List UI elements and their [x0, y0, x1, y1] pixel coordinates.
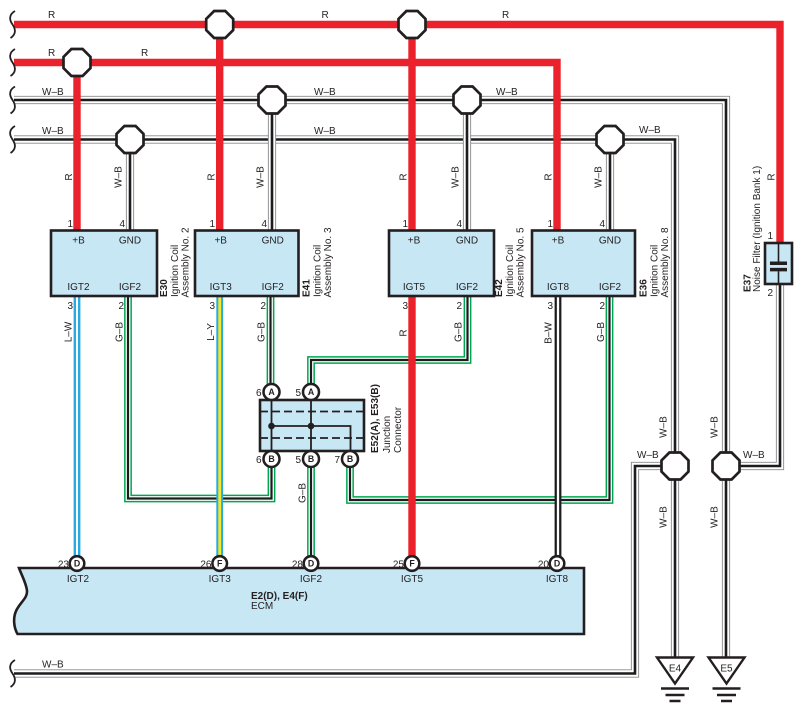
svg-text:IGF2: IGF2 [300, 574, 323, 585]
svg-text:W–B: W–B [637, 450, 659, 461]
svg-text:W–B: W–B [114, 166, 125, 188]
svg-text:3: 3 [209, 301, 215, 312]
svg-text:D: D [554, 559, 560, 569]
svg-text:G–B: G–B [298, 483, 309, 503]
svg-text:Assembly No. 5: Assembly No. 5 [516, 227, 527, 297]
svg-text:E36: E36 [639, 279, 650, 297]
svg-text:A: A [308, 387, 315, 397]
svg-text:5: 5 [295, 455, 301, 466]
svg-text:2: 2 [767, 288, 773, 299]
svg-text:1: 1 [209, 219, 215, 230]
svg-text:W–B: W–B [451, 166, 462, 188]
svg-text:+B: +B [552, 236, 565, 247]
svg-text:IGT8: IGT8 [547, 282, 570, 293]
svg-text:W–B: W–B [594, 166, 605, 188]
svg-text:1: 1 [767, 231, 773, 242]
svg-text:G–B: G–B [596, 322, 607, 342]
svg-text:IGT3: IGT3 [209, 574, 232, 585]
svg-text:B: B [268, 454, 274, 464]
svg-text:Ignition Coil: Ignition Coil [650, 245, 661, 297]
svg-text:R: R [544, 173, 555, 180]
svg-text:R: R [399, 173, 410, 180]
svg-text:IGT2: IGT2 [67, 282, 90, 293]
svg-text:1: 1 [67, 219, 73, 230]
svg-text:+B: +B [408, 236, 421, 247]
svg-text:Junction: Junction [382, 416, 393, 453]
svg-text:7: 7 [334, 455, 340, 466]
svg-text:Assembly No. 8: Assembly No. 8 [660, 227, 671, 297]
svg-text:3: 3 [67, 301, 73, 312]
svg-text:6: 6 [256, 388, 262, 399]
svg-text:4: 4 [119, 219, 125, 230]
svg-text:IGF2: IGF2 [599, 282, 622, 293]
svg-text:R: R [767, 173, 778, 180]
svg-text:G–B: G–B [115, 322, 126, 342]
svg-text:2: 2 [599, 301, 605, 312]
svg-text:W–B: W–B [710, 506, 721, 528]
svg-text:A: A [268, 387, 275, 397]
svg-text:5: 5 [295, 388, 301, 399]
svg-text:GND: GND [119, 236, 141, 247]
svg-text:26: 26 [200, 560, 212, 571]
svg-text:6: 6 [256, 455, 262, 466]
svg-text:R: R [502, 10, 509, 21]
svg-text:W–B: W–B [710, 416, 721, 438]
svg-text:4: 4 [599, 219, 605, 230]
svg-text:Assembly No. 3: Assembly No. 3 [323, 227, 334, 297]
svg-text:W–B: W–B [639, 125, 661, 136]
svg-text:1: 1 [547, 219, 553, 230]
svg-text:IGF2: IGF2 [119, 282, 142, 293]
svg-text:2: 2 [260, 301, 266, 312]
svg-text:4: 4 [456, 219, 462, 230]
svg-text:Ignition Coil: Ignition Coil [313, 245, 324, 297]
svg-text:F: F [217, 559, 223, 569]
svg-text:W–B: W–B [659, 506, 670, 528]
svg-text:L–W: L–W [64, 321, 75, 342]
svg-text:B: B [347, 454, 353, 464]
svg-text:R: R [64, 173, 75, 180]
svg-text:R: R [48, 10, 55, 21]
svg-text:IGT5: IGT5 [401, 574, 424, 585]
svg-text:G–B: G–B [454, 322, 465, 342]
svg-text:E42: E42 [494, 279, 505, 297]
svg-text:Connector: Connector [393, 406, 404, 453]
svg-text:IGT2: IGT2 [67, 574, 90, 585]
svg-text:W–B: W–B [256, 166, 267, 188]
svg-text:IGT5: IGT5 [403, 282, 426, 293]
svg-text:Noise Filter (Ignition Bank 1): Noise Filter (Ignition Bank 1) [752, 166, 763, 292]
svg-text:R: R [207, 173, 218, 180]
svg-text:1: 1 [402, 219, 408, 230]
svg-text:ECM: ECM [251, 601, 273, 612]
svg-text:R: R [141, 48, 148, 59]
svg-text:W–B: W–B [42, 126, 64, 137]
svg-text:W–B: W–B [743, 450, 765, 461]
svg-text:R: R [399, 329, 410, 336]
svg-text:Ignition Coil: Ignition Coil [170, 245, 181, 297]
svg-text:G–B: G–B [257, 322, 268, 342]
svg-text:W–B: W–B [42, 660, 64, 671]
svg-text:E4: E4 [669, 664, 682, 675]
svg-text:IGF2: IGF2 [262, 282, 285, 293]
svg-text:F: F [409, 559, 415, 569]
svg-text:20: 20 [538, 560, 550, 571]
svg-text:R: R [48, 48, 55, 59]
svg-text:E41: E41 [302, 279, 313, 297]
svg-text:IGT8: IGT8 [546, 574, 569, 585]
svg-text:IGF2: IGF2 [456, 282, 479, 293]
svg-text:W–B: W–B [314, 87, 336, 98]
svg-text:+B: +B [72, 236, 85, 247]
svg-text:+B: +B [214, 236, 227, 247]
svg-text:GND: GND [456, 236, 478, 247]
svg-text:B: B [308, 454, 314, 464]
svg-text:3: 3 [402, 301, 408, 312]
svg-text:E52(A), E53(B): E52(A), E53(B) [370, 384, 381, 453]
svg-text:R: R [322, 10, 329, 21]
svg-text:E30: E30 [159, 279, 170, 297]
svg-text:W–B: W–B [496, 87, 518, 98]
svg-text:E5: E5 [720, 664, 733, 675]
svg-text:Ignition Coil: Ignition Coil [505, 245, 516, 297]
svg-text:23: 23 [58, 560, 70, 571]
svg-text:3: 3 [547, 301, 553, 312]
svg-text:IGT3: IGT3 [210, 282, 233, 293]
svg-text:D: D [308, 559, 314, 569]
svg-text:28: 28 [292, 560, 304, 571]
svg-text:4: 4 [261, 219, 267, 230]
svg-text:D: D [74, 559, 80, 569]
svg-text:2: 2 [118, 301, 124, 312]
svg-text:2: 2 [456, 301, 462, 312]
svg-text:W–B: W–B [659, 416, 670, 438]
svg-text:Assembly No. 2: Assembly No. 2 [181, 227, 192, 297]
svg-text:25: 25 [393, 560, 405, 571]
svg-text:W–B: W–B [314, 126, 336, 137]
svg-text:GND: GND [262, 236, 284, 247]
svg-text:L–Y: L–Y [206, 323, 217, 341]
svg-text:W–B: W–B [42, 87, 64, 98]
svg-text:GND: GND [599, 236, 621, 247]
svg-text:B–W: B–W [544, 322, 555, 344]
